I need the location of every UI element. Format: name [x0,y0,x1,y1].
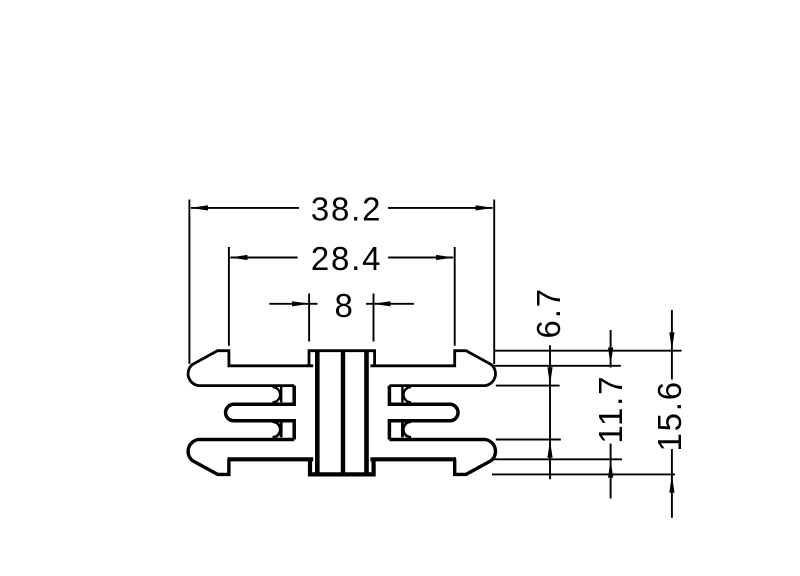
dimension 6.7 extension line top [496,385,560,387]
dimension 8 extension line left [308,294,310,342]
part outline left middle fins L2 L3 with U-bend [226,386,295,440]
dimension 28.4 extension line left [228,247,230,346]
dimension 8 arrowheads [292,301,390,306]
dimension 15.6 extension line top [494,350,682,352]
dimension 11.7 line top [610,330,612,368]
part outline right top barb and ledge and fin L1 [370,351,495,386]
svg-text:6.7: 6.7 [530,287,567,338]
dimension 15.6 line top [671,310,673,380]
dimension 28.4 line [230,257,453,259]
dimension 11.7 extension line top [493,365,621,367]
part outline right middle fins L2 L3 with U-bend [389,386,458,440]
dimension 28.4 arrowheads [230,255,454,260]
part outline left bottom ledge [228,457,314,461]
part outline left top barb and ledge and fin L1 [188,351,313,386]
svg-text:38.2: 38.2 [311,191,382,228]
svg-text:15.6: 15.6 [651,380,688,451]
central cap top [309,351,375,366]
part outline left fin L4 and bottom barb [188,440,294,475]
closure fold detail upper-right (arc + sheet end) [402,387,411,402]
dimension 8 line left tail [269,303,317,305]
column middle seam [341,351,345,475]
closure fold detail upper-left (arc + sheet end) [273,387,282,402]
part outline right bottom ledge [370,457,456,461]
part outline right fin L4 and bottom barb [389,440,495,475]
dimension 11.7 extension line bottom [493,458,622,460]
svg-text:11.7: 11.7 [592,375,629,444]
dimension 15.6 arrowheads [669,332,674,492]
svg-text:28.4: 28.4 [311,240,382,277]
dimension 28.4 extension line right [454,247,456,346]
dimension 38.2 extension line left [188,200,190,364]
closure fold detail lower-right (arc + sheet end) [402,422,411,438]
dimension 15.6 line bottom [671,449,673,518]
dimension 6.7 extension line bottom [496,439,561,441]
dimension 11.7 arrowheads [608,348,613,478]
dimension 8 extension line right [373,294,375,342]
dimension 6.7 line [549,345,551,479]
dimension 38.2 arrowheads [190,205,493,210]
dimension 6.7 arrowheads [547,367,552,458]
dimension 11.7 line bottom [610,444,612,499]
dimension 38.2 line [191,207,493,209]
dimension 8 line right tail [366,303,414,305]
column right wall [364,351,369,475]
closure fold detail lower-left (arc + sheet end) [273,422,282,438]
central cap bottom [310,459,374,474]
column left wall [315,351,320,475]
dimension 15.6 extension line bottom [492,473,675,475]
dimension 38.2 extension line right [493,200,495,365]
svg-text:8: 8 [335,287,355,324]
